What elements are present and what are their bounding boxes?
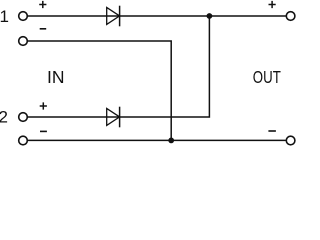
label OUT: [253, 67, 281, 87]
terminal 1-: [19, 37, 28, 46]
label 2: [0, 108, 8, 127]
wire input2- to OUT-: [28, 139, 286, 141]
wire input1+ to node A: [28, 15, 286, 17]
terminal 1+: [19, 12, 28, 21]
diode D1: [107, 6, 120, 27]
polarity - (output): [268, 130, 276, 132]
svg-text:2: 2: [0, 108, 8, 127]
polarity + (output): [269, 1, 276, 8]
polarity + (input 2): [40, 102, 47, 109]
svg-text:IN: IN: [47, 67, 65, 87]
polarity + (input 1): [39, 1, 46, 8]
terminal OUT+: [286, 12, 295, 21]
wire input1- down to node B: [28, 41, 172, 140]
terminal 2+: [19, 113, 28, 122]
wire input2+ up to node A: [28, 16, 210, 117]
polarity - (input 1): [40, 28, 47, 30]
terminal OUT-: [286, 136, 295, 145]
node A junction: [207, 13, 213, 19]
diode D2: [107, 107, 120, 128]
node B junction: [168, 138, 174, 144]
label 1: [0, 7, 9, 26]
terminal 2-: [19, 136, 28, 145]
polarity - (input 2): [40, 130, 47, 132]
label IN: [47, 67, 65, 87]
svg-text:1: 1: [0, 7, 9, 26]
svg-text:OUT: OUT: [253, 67, 281, 87]
